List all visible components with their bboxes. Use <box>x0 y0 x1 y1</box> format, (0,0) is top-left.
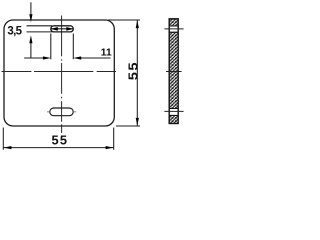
dim 11 right arrow line <box>80 57 111 59</box>
side view cross-hatched body <box>169 19 178 124</box>
bottom hole (obround) <box>50 108 73 116</box>
right 55 dimension line with arrows <box>136 20 138 126</box>
side view slot edge lines <box>169 26 178 32</box>
vertical centerline through slots <box>61 16 63 134</box>
svg-text:11: 11 <box>101 47 112 59</box>
right 55 top extension line <box>108 19 140 21</box>
bottom 55 dimension line with arrows <box>3 147 113 149</box>
horizontal centerline of plate <box>2 71 117 73</box>
bottom 55 extension lines <box>3 128 113 150</box>
slot mid dimension line <box>51 28 74 30</box>
side view hole edge lines <box>169 109 178 116</box>
dim 3,5 dimension line lower leg with up arrow <box>30 43 32 59</box>
dim 11 extension lines <box>51 34 74 60</box>
side view mid centerline tick <box>166 71 182 73</box>
slot left dimension arrow <box>51 27 58 31</box>
svg-text:55: 55 <box>127 61 141 80</box>
side view slot centerline ticks <box>164 28 183 30</box>
right 55 bottom extension line <box>116 125 140 127</box>
bottom hole horizontal centerline ticks <box>47 111 76 113</box>
dim 3,5 extension lines <box>27 26 53 32</box>
slot right dimension arrow <box>66 27 73 31</box>
svg-text:55: 55 <box>52 133 69 148</box>
plate outline (front view, rounded square) <box>4 20 114 126</box>
dim 3,5 dimension line upper leg with down arrow <box>30 2 32 15</box>
svg-text:3,5: 3,5 <box>7 25 22 37</box>
side view hole centerline ticks <box>164 110 183 112</box>
top slot (obround 11 x 3,5) <box>51 26 74 32</box>
dim 11 left arrow line <box>24 57 44 59</box>
